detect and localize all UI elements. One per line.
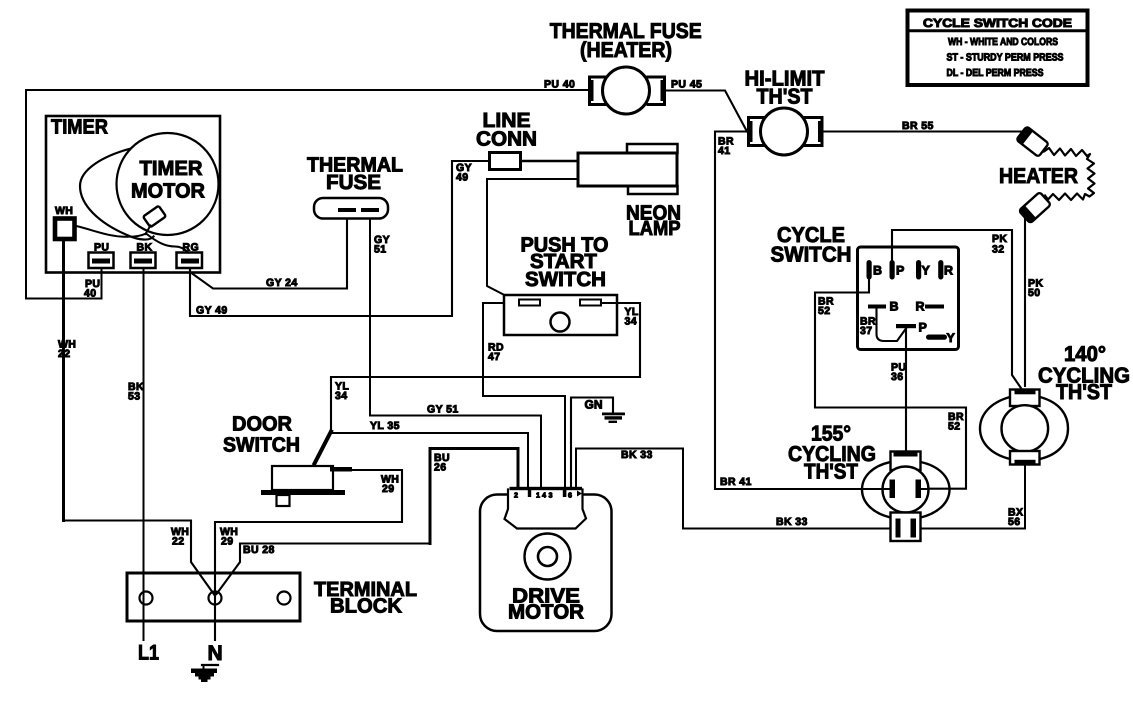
svg-text:MOTOR: MOTOR	[508, 601, 584, 624]
svg-text:34: 34	[335, 390, 347, 402]
timer contact diamond	[143, 206, 166, 228]
svg-text:26: 26	[434, 462, 446, 474]
svg-text:29: 29	[221, 536, 233, 548]
svg-text:4: 4	[542, 491, 546, 500]
cycle switch lower contacts	[868, 305, 886, 309]
door switch base bar	[261, 490, 345, 495]
chassis ground (GN)	[602, 413, 625, 424]
svg-text:140°: 140°	[1064, 342, 1106, 366]
diamond stem	[146, 226, 151, 235]
svg-text:L1: L1	[138, 642, 159, 665]
timer pin RG	[177, 253, 203, 269]
wire neon lamp to push-to-start switch	[487, 179, 578, 303]
thermal fuse (heater) component	[590, 77, 607, 105]
svg-text:PU: PU	[94, 242, 109, 254]
drive motor pin bar	[510, 487, 583, 490]
wire WH 22 vertical from timer	[62, 239, 65, 521]
svg-text:BR 55: BR 55	[902, 120, 934, 132]
svg-text:22: 22	[58, 348, 70, 360]
drive motor pin stubs and numbers	[528, 490, 567, 497]
wire GY 24 RG pin to thermal fuse	[190, 219, 347, 289]
wire BU 26 drive motor to junction (thick)	[430, 449, 518, 544]
svg-text:GY 49: GY 49	[196, 305, 228, 317]
svg-text:GY 24: GY 24	[266, 277, 298, 289]
svg-text:BU 28: BU 28	[243, 544, 275, 556]
svg-text:WH - WHITE AND COLORS: WH - WHITE AND COLORS	[948, 37, 1058, 48]
svg-text:Y: Y	[947, 331, 956, 345]
terminal post L1	[140, 592, 153, 605]
svg-text:N: N	[208, 642, 223, 665]
svg-text:MOTOR: MOTOR	[131, 180, 205, 203]
terminal post N	[209, 592, 222, 605]
svg-text:P: P	[896, 264, 904, 278]
door switch body	[272, 466, 333, 490]
timer WH contact square	[55, 219, 75, 240]
ground at terminal N	[202, 664, 218, 666]
svg-text:LAMP: LAMP	[629, 217, 681, 240]
door switch tab	[277, 495, 290, 506]
door switch contact bar right	[330, 467, 352, 472]
svg-text:CYCLE SWITCH CODE: CYCLE SWITCH CODE	[923, 16, 1072, 30]
wire GN drive motor to chassis ground	[571, 398, 613, 489]
svg-text:GY 51: GY 51	[427, 404, 459, 416]
neon lamp component	[627, 144, 678, 153]
drive motor connector flap	[505, 490, 587, 529]
svg-text:PU 40: PU 40	[544, 79, 575, 91]
svg-text:40: 40	[84, 288, 96, 300]
svg-text:CONN: CONN	[476, 128, 537, 151]
svg-text:BK 33: BK 33	[776, 516, 808, 528]
svg-text:HEATER: HEATER	[999, 164, 1078, 188]
terminal post right	[278, 592, 291, 605]
svg-text:SWITCH: SWITCH	[771, 243, 852, 267]
svg-text:SWITCH: SWITCH	[525, 268, 606, 291]
svg-text:(HEATER): (HEATER)	[580, 38, 672, 62]
svg-text:SWITCH: SWITCH	[223, 434, 300, 457]
thermal fuse body	[314, 198, 388, 219]
svg-text:BR 41: BR 41	[720, 476, 752, 488]
svg-text:3: 3	[549, 491, 553, 500]
svg-text:56: 56	[1008, 516, 1020, 528]
svg-text:Y: Y	[922, 264, 931, 278]
svg-text:TH'ST: TH'ST	[1056, 380, 1112, 404]
terminal block	[127, 573, 300, 621]
155 cycling th'st component	[862, 462, 891, 518]
wire PU 36 cycle switch P to 155 cycling th'st	[905, 329, 907, 452]
wire GY 51 thermal fuse to drive motor	[370, 219, 541, 489]
svg-text:R: R	[916, 300, 925, 314]
wire BK 33 drive motor to 155 cycling th'st	[576, 449, 891, 529]
svg-text:53: 53	[128, 391, 140, 403]
wire BR 55 hi-limit to heater	[822, 130, 1026, 132]
svg-text:DL - DEL PERM PRESS: DL - DEL PERM PRESS	[947, 68, 1044, 79]
hi-limit thermostat component	[749, 118, 766, 146]
wire BR 52 cycle switch B to 155 cycling th'st	[815, 280, 966, 489]
140 cycling th'st component	[980, 397, 1010, 459]
wire BR 37 internal	[877, 309, 907, 342]
timer pin BK	[131, 253, 156, 269]
svg-text:34: 34	[625, 316, 637, 328]
cycle switch box	[858, 247, 959, 350]
wire BK 33 / BX 56 right section	[921, 528, 1026, 530]
timer cam blob	[80, 149, 154, 240]
svg-text:36: 36	[891, 371, 903, 383]
cycle switch top pins B P Y R	[867, 260, 944, 280]
svg-text:49: 49	[456, 172, 468, 184]
wire BR 41 hi-limit to 155 cycling th'st	[715, 132, 884, 490]
wire BU 28 junction to terminal N	[217, 544, 431, 595]
svg-text:TH'ST: TH'ST	[757, 85, 813, 109]
svg-text:BK: BK	[137, 242, 153, 254]
wire cam to RG pin	[146, 234, 189, 253]
cycle switch P contact	[896, 324, 916, 328]
svg-text:1: 1	[536, 491, 540, 500]
svg-text:52: 52	[948, 421, 960, 433]
svg-text:32: 32	[992, 244, 1004, 256]
svg-text:TH'ST: TH'ST	[804, 460, 858, 484]
line conn component	[490, 153, 521, 170]
wire line conn to neon lamp	[521, 160, 579, 162]
wire PU 45 to hi-limit	[665, 91, 748, 132]
wire PK 32 cycle switch P to 140 cycling th'st	[892, 230, 1022, 390]
svg-text:29: 29	[382, 483, 394, 495]
svg-text:BK 33: BK 33	[621, 449, 653, 461]
wire WH 22 horizontal and drop to terminal N	[64, 521, 215, 596]
svg-text:2: 2	[514, 491, 518, 500]
heater bottom terminal cone	[1019, 192, 1051, 223]
wire PK 50 heater to 140 cycling th'st	[1024, 219, 1026, 386]
svg-text:51: 51	[374, 244, 386, 256]
wire WH 29 door switch to terminal N	[215, 470, 402, 640]
svg-text:B: B	[890, 300, 899, 314]
svg-text:22: 22	[172, 536, 184, 548]
wire YL 34 switch to door switch	[331, 303, 640, 431]
svg-text:P: P	[919, 321, 927, 335]
svg-text:YL 35: YL 35	[370, 420, 400, 432]
svg-text:6: 6	[568, 491, 572, 500]
drive motor shaft circles	[525, 534, 571, 580]
drive motor body	[480, 495, 612, 632]
legend box CYCLE SWITCH CODE	[908, 11, 1088, 86]
svg-text:R: R	[944, 264, 953, 278]
svg-text:B: B	[873, 264, 882, 278]
svg-text:DOOR: DOOR	[232, 413, 292, 436]
svg-text:TIMER: TIMER	[51, 116, 108, 139]
wire RD 47 switch to drive motor	[483, 303, 565, 488]
svg-text:50: 50	[1028, 287, 1040, 299]
heater coil	[1044, 148, 1095, 200]
svg-text:41: 41	[718, 145, 730, 157]
cycle switch Y contact	[926, 335, 947, 340]
wire BX 56 140 th'st to BK 33	[1024, 465, 1026, 529]
svg-text:ST - STURDY PERM PRESS: ST - STURDY PERM PRESS	[947, 53, 1064, 64]
svg-text:TIMER: TIMER	[140, 157, 203, 180]
svg-text:GN: GN	[585, 398, 603, 412]
wire YL 35 door switch to drive motor	[332, 433, 528, 488]
wire BK 53 timer to terminal L1	[143, 269, 145, 641]
push to start switch body	[504, 295, 617, 335]
svg-text:37: 37	[860, 325, 872, 337]
svg-text:PU 45: PU 45	[671, 79, 702, 91]
wire PU 40 net: timer PU pin to thermal fuse (heater) via left frame and top run	[26, 90, 588, 299]
door switch lever	[315, 432, 332, 464]
svg-text:BLOCK: BLOCK	[330, 595, 402, 618]
svg-text:RG: RG	[183, 242, 200, 254]
wire GY 49 RG pin to line conn	[190, 161, 490, 316]
svg-text:FUSE: FUSE	[326, 171, 381, 194]
heater top terminal cone	[1016, 126, 1049, 157]
wire WH square to cam	[76, 226, 146, 237]
svg-text:WH: WH	[55, 205, 73, 217]
timer box	[46, 116, 220, 273]
timer pin PU	[89, 253, 114, 269]
svg-text:52: 52	[818, 305, 830, 317]
svg-text:47: 47	[488, 351, 500, 363]
timer motor circle	[117, 133, 219, 235]
